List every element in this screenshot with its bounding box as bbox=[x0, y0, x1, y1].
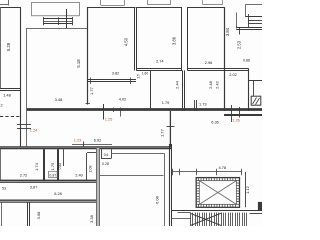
svg-text:2: 2 bbox=[0, 104, 2, 108]
svg-text:5.18: 5.18 bbox=[76, 59, 81, 68]
svg-text:3.48: 3.48 bbox=[55, 97, 64, 102]
svg-text:2.08: 2.08 bbox=[89, 166, 93, 173]
svg-text:6.92: 6.92 bbox=[94, 138, 102, 143]
svg-text:2.48: 2.48 bbox=[208, 80, 213, 89]
svg-text:0.6: 0.6 bbox=[104, 153, 109, 157]
svg-text:0.97: 0.97 bbox=[49, 173, 56, 177]
svg-text:0.28: 0.28 bbox=[102, 162, 109, 166]
svg-text:4.50: 4.50 bbox=[124, 37, 129, 46]
svg-text:3.82: 3.82 bbox=[112, 71, 120, 76]
svg-text:0.82: 0.82 bbox=[58, 163, 62, 170]
svg-text:6.36: 6.36 bbox=[211, 120, 219, 125]
svg-text:2.74: 2.74 bbox=[156, 59, 164, 64]
svg-text:6.28: 6.28 bbox=[54, 191, 62, 196]
svg-text:1.48: 1.48 bbox=[3, 92, 12, 97]
svg-text:3.84: 3.84 bbox=[225, 27, 230, 36]
svg-text:5.28: 5.28 bbox=[6, 42, 11, 51]
svg-text:6.08: 6.08 bbox=[155, 195, 160, 204]
svg-text:2.44: 2.44 bbox=[174, 80, 179, 89]
svg-text:2.02: 2.02 bbox=[229, 72, 237, 77]
svg-text:4.78: 4.78 bbox=[219, 165, 227, 170]
svg-text:1.60: 1.60 bbox=[142, 72, 148, 76]
svg-text:4.02: 4.02 bbox=[119, 96, 127, 101]
svg-text:2.42: 2.42 bbox=[215, 80, 220, 89]
svg-text:1.74: 1.74 bbox=[34, 162, 39, 171]
svg-text:1.77: 1.77 bbox=[89, 86, 94, 95]
svg-text:53: 53 bbox=[2, 187, 6, 191]
svg-text:2.53: 2.53 bbox=[236, 40, 241, 49]
svg-text:1.24: 1.24 bbox=[30, 128, 38, 133]
svg-text:1.79: 1.79 bbox=[162, 100, 170, 105]
svg-text:1.5: 1.5 bbox=[137, 74, 141, 79]
svg-text:0.86: 0.86 bbox=[243, 59, 250, 63]
svg-text:1.77: 1.77 bbox=[160, 128, 165, 137]
svg-text:3.38: 3.38 bbox=[89, 214, 94, 223]
svg-text:1.73: 1.73 bbox=[199, 102, 207, 107]
svg-text:1.25: 1.25 bbox=[105, 117, 113, 122]
svg-text:1.26: 1.26 bbox=[232, 118, 240, 123]
svg-text:3.08: 3.08 bbox=[36, 211, 41, 220]
svg-text:2.96: 2.96 bbox=[205, 60, 213, 65]
svg-text:3.86: 3.86 bbox=[172, 36, 177, 45]
svg-text:1.23: 1.23 bbox=[74, 138, 82, 143]
svg-text:1.75: 1.75 bbox=[50, 162, 55, 171]
svg-text:2.72: 2.72 bbox=[20, 172, 28, 177]
svg-text:2.40: 2.40 bbox=[75, 172, 83, 177]
svg-text:3.87: 3.87 bbox=[30, 185, 38, 190]
